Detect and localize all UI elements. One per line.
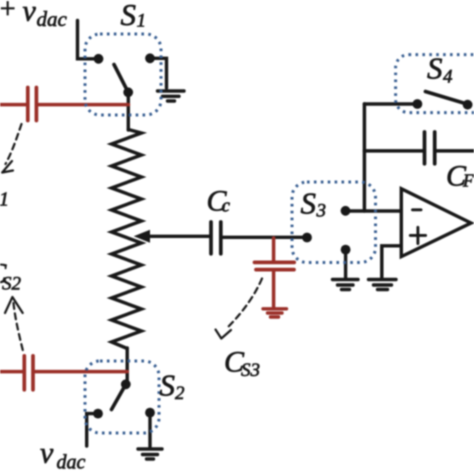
svg-text:v: v xyxy=(23,0,37,28)
svg-text:F: F xyxy=(462,171,474,191)
svg-text:S3: S3 xyxy=(241,360,260,381)
node vdac top terminal wire xyxy=(78,21,95,59)
svg-text:S: S xyxy=(121,0,137,32)
svg-text:S: S xyxy=(160,368,176,403)
switch S2 box xyxy=(85,361,159,433)
capacitor CS2 xyxy=(24,356,33,390)
red parasitic network xyxy=(0,88,294,390)
ground at S1 xyxy=(158,91,185,101)
svg-text:3: 3 xyxy=(316,201,327,222)
switch S2 lever xyxy=(112,384,126,409)
wire S1 right throw to ground xyxy=(150,58,167,88)
switch S2 right throw dot xyxy=(145,408,155,418)
svg-text:c: c xyxy=(222,196,231,217)
svg-text:dac: dac xyxy=(37,7,68,31)
wire S1 common to resistor top xyxy=(127,90,130,130)
wire left edge to CS1 xyxy=(0,103,26,107)
switch S1 left throw dot xyxy=(94,54,104,64)
dashed callout arrows xyxy=(2,124,262,353)
wire S2 right throw to ground xyxy=(148,413,151,447)
op-amp U1 xyxy=(401,189,471,257)
svg-text:+: + xyxy=(0,0,17,25)
capacitor CS1 xyxy=(28,88,37,121)
switch S2 left throw dot xyxy=(93,409,103,419)
resistor (potentiometer body) xyxy=(112,130,142,349)
wire to S4 left throw xyxy=(364,102,413,105)
svg-text:dac: dac xyxy=(57,451,86,473)
svg-text:1: 1 xyxy=(0,189,9,211)
wire CF right plate to output xyxy=(437,149,474,152)
switch S3 box xyxy=(292,182,376,263)
svg-text:4: 4 xyxy=(443,67,453,88)
capacitor CF xyxy=(425,132,435,164)
svg-text:v: v xyxy=(40,437,54,470)
wire op-amp non-inverting input to ground xyxy=(382,246,400,279)
op-amp minus sign xyxy=(413,208,422,211)
ground at S2 xyxy=(138,449,162,459)
wire S3 output to op-amp inverting input xyxy=(346,209,401,212)
switch S4 left dot xyxy=(413,99,423,109)
switch S3 left dot xyxy=(302,233,312,243)
switch S4 box xyxy=(396,55,474,113)
wire CS2 to S2 common node xyxy=(35,370,128,374)
ground below S3 xyxy=(333,280,359,290)
switch S1 box xyxy=(85,34,161,115)
ground below CS3 xyxy=(263,309,287,317)
wire CS3 to ground xyxy=(272,271,276,307)
arrow to CS1 label xyxy=(6,124,22,164)
wire feedback to CF left plate xyxy=(364,149,422,152)
switch S1 common dot xyxy=(123,87,133,97)
capacitor CS3 xyxy=(255,262,295,269)
wire Cc/S3 node down to CS3 xyxy=(272,238,276,261)
feedback node vertical wire xyxy=(363,104,366,211)
switch S2 common dot xyxy=(121,379,131,389)
wire S3 ground throw down xyxy=(344,250,347,279)
capacitor Cc xyxy=(211,222,221,254)
switch S3 ground-throw dot xyxy=(341,245,351,255)
svg-text:1: 1 xyxy=(137,11,147,32)
switch S1 lever xyxy=(114,65,128,93)
switch S4 right dot xyxy=(463,100,473,110)
svg-text:S: S xyxy=(427,51,443,86)
switch S4 lever xyxy=(425,92,467,105)
svg-text:S2: S2 xyxy=(2,274,22,295)
wire Cc to S3 xyxy=(223,236,306,239)
ground at op-amp + input xyxy=(369,280,397,290)
wiper arrowhead xyxy=(134,230,150,243)
wire CS1 to S1 common node xyxy=(38,103,128,107)
wire resistor bottom to S2 common xyxy=(125,348,128,384)
switch S3 output dot xyxy=(341,206,351,216)
switch S1 right throw dot xyxy=(145,53,155,63)
dotted switch boxes xyxy=(85,34,474,433)
arrow to CS3 label xyxy=(228,279,262,328)
wire left edge to CS2 xyxy=(0,370,23,374)
svg-text:S: S xyxy=(301,186,317,221)
wiper arrow wire to Cc xyxy=(140,235,210,238)
wire S2 left throw to vdac bottom terminal xyxy=(87,414,98,446)
svg-text:2: 2 xyxy=(175,383,185,404)
op-amp plus sign xyxy=(410,227,425,243)
arrow from CS2 label xyxy=(5,297,23,313)
